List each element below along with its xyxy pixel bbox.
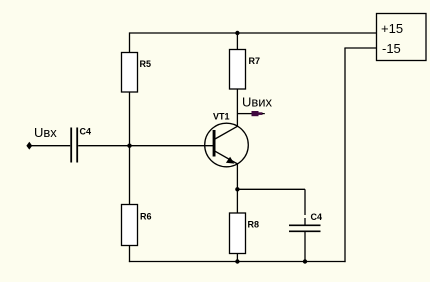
svg-text:R7: R7 [249, 56, 261, 66]
resistor R6 [122, 205, 152, 246]
resistor R8 [230, 213, 260, 254]
svg-text:-15: -15 [382, 41, 401, 56]
svg-text:R6: R6 [140, 212, 152, 222]
transistor VT1 [205, 112, 249, 167]
wire R5 top vertical [129, 32, 131, 53]
wire capacitor to base [78, 145, 213, 147]
svg-text:VT1: VT1 [213, 112, 230, 122]
wire emitter to C4 branch [237, 188, 305, 190]
wire right vertical to -15 [344, 48, 346, 262]
wire output tap [237, 113, 252, 115]
wire top rail +15 [130, 32, 377, 34]
svg-text:+15: +15 [381, 21, 403, 36]
wire C4 bottom lead [304, 231, 306, 261]
wire bottom rail [129, 261, 346, 263]
node junction top rail [235, 31, 239, 35]
output arrow pin [252, 111, 265, 116]
svg-text:Uвих: Uвих [242, 95, 273, 110]
svg-text:C4: C4 [311, 212, 323, 222]
resistor R7 [230, 50, 261, 90]
node junction base/divider [127, 144, 131, 148]
node Uvh input pin [27, 143, 32, 149]
wire emitter down [236, 164, 238, 190]
wire input to capacitor [29, 145, 70, 147]
svg-text:R8: R8 [248, 220, 260, 230]
node junction emitter [235, 187, 239, 191]
wire R5 bottom to R6 top [129, 92, 131, 205]
capacitor C4 input [71, 127, 91, 163]
node junction C4 bottom [303, 259, 307, 263]
capacitor C4 emitter [289, 212, 322, 231]
wire R7 top vertical [236, 33, 238, 50]
wire C4 top lead [304, 189, 306, 215]
wire R8 bottom [236, 254, 238, 262]
resistor R5 [122, 53, 152, 93]
wire R7 bottom to collector [236, 89, 238, 126]
node junction R8 bottom [235, 259, 239, 263]
wire R6 bottom vertical [129, 246, 131, 263]
svg-text:Uвх: Uвх [34, 125, 57, 140]
svg-text:R5: R5 [140, 59, 152, 69]
wire R8 top [236, 189, 238, 213]
wire -15 stub [344, 47, 376, 49]
svg-text:C4: C4 [80, 127, 92, 137]
power supply box +15/-15 [377, 14, 427, 61]
